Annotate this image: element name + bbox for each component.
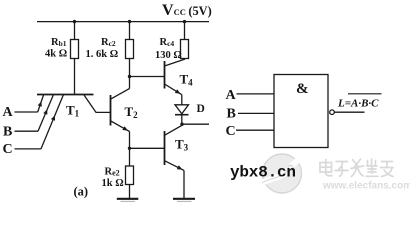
transistor T3 emitter xyxy=(165,161,185,171)
transistor T1 multi-emitter base bar xyxy=(37,94,94,96)
node: T4 base branch on Rc2 leg xyxy=(128,75,131,78)
svg-text:A: A xyxy=(3,105,14,120)
svg-text:(a): (a) xyxy=(74,184,89,198)
node: rail junction for Rc2 xyxy=(128,20,131,23)
wire: rail to Rb1 to T1 base xyxy=(74,22,76,95)
transistor T3 base bar xyxy=(164,131,166,165)
svg-text:D: D xyxy=(197,103,205,115)
resistor Rc4 xyxy=(181,40,189,59)
ground under Re2 xyxy=(117,198,139,200)
diode D xyxy=(175,105,189,114)
transistor T4 emitter xyxy=(165,84,182,95)
svg-text:L=A·B·C: L=A·B·C xyxy=(337,98,379,110)
ground under T3 xyxy=(173,198,195,200)
gate input wire A xyxy=(237,93,275,95)
resistor Rb1 xyxy=(71,40,79,59)
svg-text:Rc2: Rc2 xyxy=(101,37,116,48)
transistor T1 emitter B xyxy=(38,95,54,132)
wire: T3 base xyxy=(130,147,165,149)
svg-text:VCC (5V): VCC (5V) xyxy=(162,2,212,19)
wire: T2 emitter down to Re2 xyxy=(129,132,131,167)
svg-text:C: C xyxy=(226,124,236,139)
svg-text:Re2: Re2 xyxy=(105,166,120,177)
svg-text:ybx8.cn: ybx8.cn xyxy=(230,163,296,181)
svg-text:T4: T4 xyxy=(180,71,194,87)
svg-text:T2: T2 xyxy=(125,104,139,120)
svg-text:www.elecfans.com: www.elecfans.com xyxy=(322,181,410,192)
svg-text:Rc4: Rc4 xyxy=(160,37,175,48)
transistor T1 emitter C xyxy=(41,95,64,149)
svg-text:Rb1: Rb1 xyxy=(51,37,67,48)
transistor T1 collector xyxy=(84,95,111,112)
node: T3 base branch xyxy=(128,147,131,150)
svg-text:130 Ω: 130 Ω xyxy=(155,50,182,61)
wire: input B xyxy=(15,130,39,132)
svg-text:4k Ω: 4k Ω xyxy=(45,49,67,60)
svg-text:C: C xyxy=(3,142,13,157)
svg-text:T3: T3 xyxy=(175,136,189,152)
gate inversion bubble xyxy=(330,110,335,115)
svg-text:&: & xyxy=(296,81,309,97)
transistor T2 collector xyxy=(111,89,130,100)
watermark swirl logo xyxy=(262,154,302,193)
wire: rail to Rc2 down to T2 collector xyxy=(129,22,131,89)
node: output junction xyxy=(180,123,183,126)
svg-text:A: A xyxy=(226,88,237,103)
wire: T4 base from Rc2 leg xyxy=(130,76,165,78)
overline of L expression xyxy=(348,93,382,95)
transistor T2 base bar xyxy=(110,95,112,126)
wire: T4 emitter to diode xyxy=(181,95,183,105)
node: rail junction for Rb1 xyxy=(73,20,76,23)
resistor Re2 xyxy=(126,166,134,185)
wire: output stub xyxy=(182,123,209,125)
resistor Rc2 xyxy=(126,40,134,59)
gate output wire xyxy=(334,111,364,113)
svg-text:B: B xyxy=(3,125,12,140)
transistor T3 collector xyxy=(165,125,183,135)
watermark CJK chars (drawn) xyxy=(320,159,393,177)
transistor T4 base bar xyxy=(164,61,166,89)
wire: diode cathode down to output node xyxy=(181,115,183,126)
svg-text:1k Ω: 1k Ω xyxy=(102,178,124,189)
wire: rail to Rc4 down to T4 collector xyxy=(184,22,186,60)
gate input wire B xyxy=(238,112,274,114)
svg-text:1. 6k Ω: 1. 6k Ω xyxy=(86,49,119,60)
transistor T4 collector xyxy=(165,59,185,66)
logic gate box xyxy=(274,75,328,148)
svg-text:T1: T1 xyxy=(66,103,80,119)
svg-text:B: B xyxy=(227,107,236,122)
transistor T1 emitter A xyxy=(38,95,44,113)
wire: VCC power rail xyxy=(37,21,209,23)
wire: T3 emitter to ground xyxy=(183,170,185,198)
wire: input A xyxy=(15,111,38,113)
transistor T2 emitter xyxy=(111,121,130,132)
wire: input C xyxy=(15,148,42,150)
wire: Re2 to ground xyxy=(129,185,131,199)
gate input wire C xyxy=(236,129,274,131)
node: rail junction for Rc4 xyxy=(183,20,186,23)
